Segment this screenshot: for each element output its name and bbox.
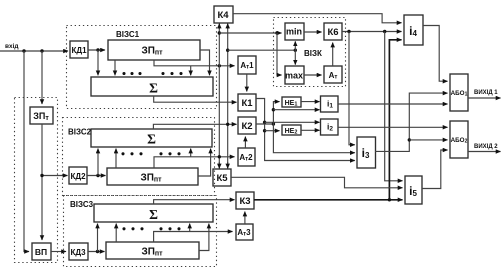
block At1	[238, 56, 256, 74]
wire K2 vertical to i3	[273, 124, 354, 153]
arrow bus2 into K5	[227, 162, 229, 168]
wire ABO2 output	[468, 151, 501, 153]
svg-text:ВІЗС3: ВІЗС3	[70, 200, 94, 209]
wire ZPpt2 top bus to At2	[154, 157, 235, 168]
block KD3	[69, 243, 88, 260]
wire ABO1 output	[468, 97, 501, 99]
block Sigma1	[91, 77, 213, 96]
wire ZPt to VP	[41, 124, 43, 240]
dots row VIZS1	[122, 72, 182, 75]
svg-text:вхід: вхід	[5, 42, 19, 50]
wire min to K6	[304, 31, 322, 33]
arrow bus2 into K4	[227, 24, 229, 29]
node K1 branch NE2	[263, 129, 266, 132]
wire KD3 to Sigma3	[97, 224, 99, 252]
block At	[324, 66, 342, 83]
wire VP to KD3	[51, 251, 66, 253]
wire ZPpt2 right edge to Sigma2	[198, 149, 211, 176]
wire input to VP left	[24, 51, 29, 252]
wire Sigma2 out to K2	[153, 124, 236, 129]
wire K3 to i4	[389, 40, 401, 200]
node K6 branch1	[347, 30, 350, 33]
block ZPt	[30, 107, 53, 124]
wire max to At	[304, 74, 322, 76]
dots row VIZS3	[122, 227, 180, 230]
node K2 branch i1	[272, 108, 275, 111]
wire NE2 to i2	[301, 129, 320, 131]
wire K4 out to i4	[233, 14, 402, 23]
svg-text:max: max	[285, 71, 303, 81]
wire Sigma3 out to K3	[154, 200, 235, 204]
svg-text:КД1: КД1	[71, 46, 87, 55]
node K6 branch2	[383, 30, 386, 33]
wire ZPpt2 rise to Sigma2	[115, 149, 117, 168]
wire K6 to i5	[385, 32, 403, 181]
wire vertical bus2 K4-K5	[227, 26, 229, 166]
node K2 vertical	[272, 122, 275, 125]
block K3	[236, 192, 254, 209]
wire minmax vertical arrow down into max	[294, 50, 296, 64]
block KD2	[69, 167, 87, 184]
svg-text:Ат3: Ат3	[237, 228, 251, 237]
wire ZPt line to KD2	[42, 175, 68, 177]
block K4	[214, 6, 233, 23]
block i1	[321, 96, 339, 112]
node ZPt-KD2 branch	[40, 174, 43, 177]
wire ZPpt3 right edge to Sigma3	[199, 224, 209, 251]
svg-text:ВІЗС2: ВІЗС2	[68, 128, 92, 137]
node KD2 branch	[96, 174, 99, 177]
wire K2 up to NE1	[273, 102, 279, 124]
wire K6 to i3	[349, 32, 355, 145]
block Sigma3	[94, 204, 213, 222]
svg-text:К3: К3	[239, 196, 250, 207]
block K5	[213, 169, 231, 186]
node KD1 branch	[96, 48, 99, 51]
svg-text:НЕ2: НЕ2	[285, 128, 298, 136]
wire At to K6	[332, 43, 334, 66]
wire Sigma1 out to K1	[154, 96, 237, 102]
node K1 branch i2	[263, 121, 266, 124]
node input-VP	[22, 49, 25, 52]
block i2	[321, 119, 339, 135]
block At3	[236, 224, 253, 240]
node bus1 min-line	[218, 31, 221, 34]
node Sigma2-bus2	[226, 123, 229, 126]
node minmax vertical	[294, 49, 297, 52]
block ZPpt3	[106, 242, 199, 259]
svg-text:min: min	[286, 27, 302, 37]
wire K1 out down	[256, 99, 355, 161]
svg-text:ВІЗК: ВІЗК	[304, 49, 322, 58]
wire K2 out	[256, 123, 273, 125]
wire i1 out to ABO1	[338, 103, 448, 105]
wire K6 out to i4	[342, 31, 402, 33]
wire i3 branch to ABO2	[409, 139, 447, 141]
block ABO1	[450, 74, 468, 111]
dashed block left (ZPt/VP)	[15, 98, 58, 263]
svg-text:К5: К5	[216, 173, 228, 184]
wire ZPpt3 rise to Sigma3	[115, 224, 117, 242]
svg-text:АБО2: АБО2	[451, 137, 468, 145]
wire K3 out to i5	[254, 199, 403, 201]
wire At2 to K2	[244, 137, 246, 148]
svg-text:Ат2: Ат2	[239, 153, 253, 162]
block Sigma2	[91, 129, 212, 147]
node bus1-vbus1	[218, 64, 221, 67]
wire input to ZPt	[41, 51, 43, 104]
dashed block VIZS2	[63, 118, 215, 196]
node bus2s-vbus1	[218, 155, 221, 158]
svg-text:К4: К4	[217, 10, 229, 21]
node min-max branch	[275, 31, 278, 34]
block NE2	[282, 125, 301, 136]
block ZPpt1	[108, 40, 200, 60]
block ABO2	[450, 121, 468, 158]
dashed block VIZS1	[67, 26, 217, 109]
svg-text:Ат: Ат	[329, 71, 338, 80]
svg-text:Ат1: Ат1	[240, 61, 254, 70]
node KD3 branch	[96, 250, 99, 253]
block max	[285, 66, 304, 84]
wire KD1 to Sigma1	[97, 50, 99, 75]
arrow bus1 into K5	[218, 162, 220, 168]
node bus2 y50	[226, 49, 229, 52]
wire K2 branch to i1	[273, 109, 319, 111]
block NE1	[282, 97, 301, 108]
wire ZPpt1 bottom bus to At1	[154, 60, 235, 66]
wire At1 to K1	[246, 74, 248, 91]
svg-text:АБО1: АБО1	[451, 90, 468, 98]
svg-text:ВИХІД 2: ВИХІД 2	[474, 144, 498, 150]
svg-text:ВП: ВП	[35, 247, 47, 257]
dots row VIZS2	[121, 152, 180, 155]
wire KD1 out	[88, 49, 105, 51]
svg-text:КД3: КД3	[70, 248, 86, 257]
wire ZPpt1 drop to Sigma1	[114, 60, 116, 75]
wire NE1 to i1	[301, 101, 320, 103]
wire i3 out up to ABO1	[375, 93, 448, 151]
wire vertical bus1 K4-K5	[218, 26, 220, 166]
svg-text:К6: К6	[327, 27, 338, 38]
node input-ZPt	[40, 49, 43, 52]
block i4	[404, 15, 423, 45]
block K6	[324, 23, 342, 40]
wire i5 out to ABO2	[422, 150, 448, 189]
block K2	[238, 117, 256, 134]
wire KD2 out	[87, 175, 106, 177]
block min	[285, 23, 304, 40]
block ZPpt2	[107, 168, 198, 185]
svg-text:ВИХІД 1: ВИХІД 1	[474, 90, 498, 96]
wire ZPpt1 right edge to Sigma1	[200, 50, 210, 75]
svg-text:К2: К2	[241, 121, 252, 132]
wire KD2 to Sigma2	[97, 149, 99, 176]
wire KD3 out	[88, 251, 105, 253]
wire At3 to K3	[244, 212, 246, 224]
wire branch to max left	[277, 33, 282, 75]
arrow bus1 into K4	[218, 24, 220, 29]
node K3 branch	[388, 198, 391, 201]
dashed block VIZK	[274, 18, 346, 87]
wire bus1 to min	[219, 32, 281, 34]
block i5	[405, 176, 422, 204]
wire K1 branch to NE2	[265, 130, 280, 132]
wire ZPpt3 top bus to At3	[154, 232, 233, 243]
block i3	[357, 137, 376, 168]
wire i2 out to ABO2	[338, 126, 448, 128]
svg-text:НЕ1: НЕ1	[285, 100, 298, 108]
block VP	[32, 243, 51, 260]
svg-text:КД2: КД2	[70, 172, 86, 181]
block K1	[238, 94, 256, 111]
svg-text:Σ: Σ	[147, 132, 156, 147]
dashed block VIZS3	[64, 196, 217, 267]
node i3 branch	[408, 138, 411, 141]
block KD1	[70, 41, 88, 58]
wire minmax vertical arrow up into min	[294, 41, 296, 50]
wire bus2 to minmax vertical	[228, 49, 296, 51]
block At2	[238, 148, 255, 166]
wire input line	[0, 50, 68, 52]
svg-text:Σ: Σ	[149, 207, 158, 222]
wire bus3s rise to Sigma3	[189, 224, 191, 232]
wire bus1 drop to Sigma1	[190, 66, 192, 76]
svg-text:Σ: Σ	[149, 81, 158, 96]
wire K5 out to i5	[231, 177, 403, 188]
wire i4 out to ABO1	[423, 26, 448, 82]
wire K1 branch to i2	[265, 121, 320, 123]
wire bus2s rise to Sigma2	[190, 149, 192, 157]
svg-text:ВІЗС1: ВІЗС1	[116, 30, 140, 39]
svg-text:К1: К1	[241, 98, 253, 109]
